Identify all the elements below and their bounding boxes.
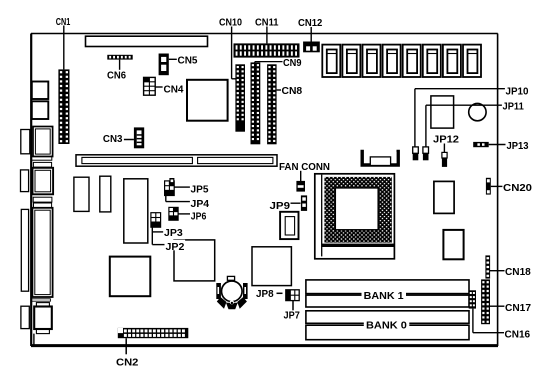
label JP3 (163, 227, 183, 239)
label JP10 (506, 87, 529, 98)
chip U6 (110, 257, 151, 297)
chip U4 (124, 179, 148, 243)
leader JP8 (277, 292, 283, 294)
svg-text:CN8: CN8 (282, 86, 303, 97)
leader JP5 (174, 186, 190, 188)
svg-text:CN6: CN6 (107, 70, 126, 81)
chip U7 (252, 247, 291, 286)
chip U3 (100, 176, 111, 212)
chip U8 (434, 181, 454, 213)
label JP4 (191, 199, 210, 210)
svg-text:JP4: JP4 (191, 199, 210, 210)
label BANK 0 (364, 317, 410, 332)
svg-text:JP8: JP8 (256, 289, 274, 300)
connector CN12 (303, 42, 320, 53)
circle component (buzzer) (469, 103, 486, 120)
svg-text:JP9: JP9 (270, 201, 291, 212)
chip U2 (74, 177, 89, 211)
label CN1 (56, 17, 71, 28)
connector CN17 (481, 279, 490, 324)
I/O connector DB25 (21, 209, 28, 291)
svg-text:CN4: CN4 (164, 84, 184, 95)
svg-text:CN20: CN20 (503, 183, 532, 194)
svg-text:CN16: CN16 (505, 329, 531, 340)
leader CN12 (310, 27, 312, 42)
label CN20 (503, 183, 532, 194)
chip U9 (443, 230, 463, 259)
I/O footprint bar 3 (31, 299, 50, 301)
svg-text:BANK 0: BANK 0 (366, 320, 407, 331)
label JP8 (256, 289, 274, 300)
leader CN10 (232, 27, 236, 79)
label JP13 (507, 141, 529, 152)
label CN2 (116, 357, 139, 368)
label JP11 (503, 101, 525, 112)
CPU socket lever bar (322, 244, 394, 247)
svg-text:CN3: CN3 (103, 134, 123, 145)
connector CN1 (58, 69, 69, 144)
leader CN1 (63, 26, 65, 70)
SIMM slot BANK1 upper (306, 280, 469, 294)
I/O footprint bars 2 (33, 197, 52, 202)
label JP2 (165, 240, 185, 253)
label CN10 (219, 18, 242, 29)
SIMM slot BANK1 lower (306, 295, 469, 307)
leader CN2 (125, 338, 127, 354)
wire below bottom I/O connector (33, 334, 35, 345)
connector CN18 (485, 255, 490, 278)
label CN17 (505, 303, 531, 314)
label CN12 (298, 18, 323, 29)
jumper JP12 (442, 152, 447, 167)
leader CN5 (169, 58, 177, 60)
jumper JP5 (165, 178, 175, 196)
socket row chip 7 (443, 45, 461, 77)
wire JP10 (415, 89, 505, 147)
jumper JP13 (473, 142, 489, 147)
connector CN8 header (267, 64, 277, 144)
wire JP7 (292, 301, 294, 311)
leader JP12 (443, 144, 445, 153)
leader FAN CONN (300, 171, 302, 181)
connector CN2 (118, 328, 189, 338)
board outline (31, 34, 498, 347)
component outline JP12 area (431, 96, 454, 128)
connector CN9 header (251, 62, 261, 144)
leader CN3 (124, 139, 134, 141)
label CN11 (255, 18, 279, 29)
socket row chip 6 (423, 45, 441, 77)
leader CN4 (155, 86, 162, 88)
svg-text:JP5: JP5 (191, 185, 209, 196)
CPU socket pin field (324, 177, 392, 243)
label CN3 (103, 134, 123, 145)
svg-text:CN12: CN12 (298, 18, 323, 29)
I/O connector DB9 lower (21, 170, 29, 192)
socket row chip 2 (342, 45, 360, 77)
svg-text:CN2: CN2 (116, 357, 139, 368)
I/O connector bottom (DIN) (36, 303, 49, 307)
wire JP3 JP2 (152, 227, 164, 244)
connector CN5 (159, 54, 169, 76)
svg-text:CN17: CN17 (505, 303, 531, 314)
leader CN9 (255, 62, 283, 64)
svg-text:JP11: JP11 (503, 101, 525, 112)
leader CN8 (277, 89, 281, 91)
svg-text:CN9: CN9 (283, 58, 302, 69)
jumper JP9 (301, 195, 307, 211)
wire CN16 (473, 309, 504, 333)
jumper JP3 JP2 (151, 213, 161, 228)
label CN4 (164, 84, 184, 95)
CPU socket outline (315, 174, 395, 259)
wire JP4 (166, 196, 190, 202)
svg-text:CN5: CN5 (178, 55, 198, 66)
leader CN6 (119, 60, 121, 70)
label BANK 1 (362, 288, 407, 303)
label JP5 (191, 185, 209, 196)
label JP7 (284, 311, 301, 322)
svg-text:CN18: CN18 (505, 267, 531, 278)
I/O connector DB9 upper (21, 130, 30, 154)
leader JP13 (489, 144, 506, 146)
svg-text:JP12: JP12 (433, 135, 459, 146)
I/O connector left sq2 (32, 101, 49, 119)
connector CN16 (469, 290, 476, 308)
crystal Y1 (280, 212, 298, 239)
CPU socket inner left line (321, 175, 323, 257)
label CN6 (107, 70, 126, 81)
connector CN6 (107, 55, 132, 60)
chip U5 (174, 240, 215, 281)
socket row chip 1 (322, 45, 340, 77)
svg-text:CN10: CN10 (219, 18, 242, 29)
I/O connector left sq1 (32, 82, 49, 100)
jumper JP11 (423, 147, 429, 160)
socket row chip 8 (463, 45, 481, 77)
socket row chip 3 (363, 45, 381, 77)
label CN18 (505, 267, 531, 278)
socket row chip 4 (383, 45, 401, 77)
label CN16 (505, 329, 531, 340)
leader CN20 (491, 185, 503, 187)
connector CN20 (486, 178, 491, 195)
fan connector (296, 181, 305, 192)
battery BT1 (216, 276, 247, 309)
svg-text:JP3: JP3 (164, 228, 183, 239)
svg-text:FAN CONN: FAN CONN (279, 162, 330, 173)
heatsink bracket (362, 150, 398, 166)
connector CN3 (134, 127, 144, 148)
connector top edge slot (86, 36, 208, 46)
connector CN4 (144, 77, 156, 95)
label JP12 (433, 135, 459, 146)
svg-text:JP10: JP10 (506, 87, 529, 98)
label FAN CONN (279, 162, 330, 173)
SIMM slot BANK0 upper (306, 311, 469, 324)
wire JP11 (426, 105, 502, 147)
leader JP9 (291, 202, 301, 204)
label CN8 (282, 86, 303, 97)
label CN9 (283, 58, 303, 70)
label CN5 (178, 55, 198, 66)
label JP9 (270, 201, 291, 212)
I/O footprint bars (31, 156, 52, 160)
jumper JP8 (286, 290, 299, 301)
CPU socket center (335, 188, 378, 230)
SIMM slot BANK0 lower (306, 325, 469, 340)
svg-text:JP13: JP13 (507, 141, 529, 152)
leader CN18 (489, 270, 504, 272)
leader CN11 (266, 27, 268, 44)
svg-text:JP6: JP6 (191, 211, 207, 222)
jumper JP10 (413, 147, 419, 160)
socket row chip 5 (403, 45, 421, 77)
svg-text:JP2: JP2 (166, 242, 185, 253)
connector CN10 header (235, 64, 245, 131)
leader CN17 (490, 305, 504, 307)
svg-text:JP7: JP7 (284, 311, 301, 322)
leader JP6 (178, 213, 190, 215)
ISA slot (76, 155, 277, 166)
chip U1 (187, 80, 228, 121)
jumper JP6 (169, 207, 178, 220)
svg-text:BANK 1: BANK 1 (364, 291, 404, 302)
connector CN11 (234, 43, 300, 57)
label JP6 (191, 211, 207, 222)
